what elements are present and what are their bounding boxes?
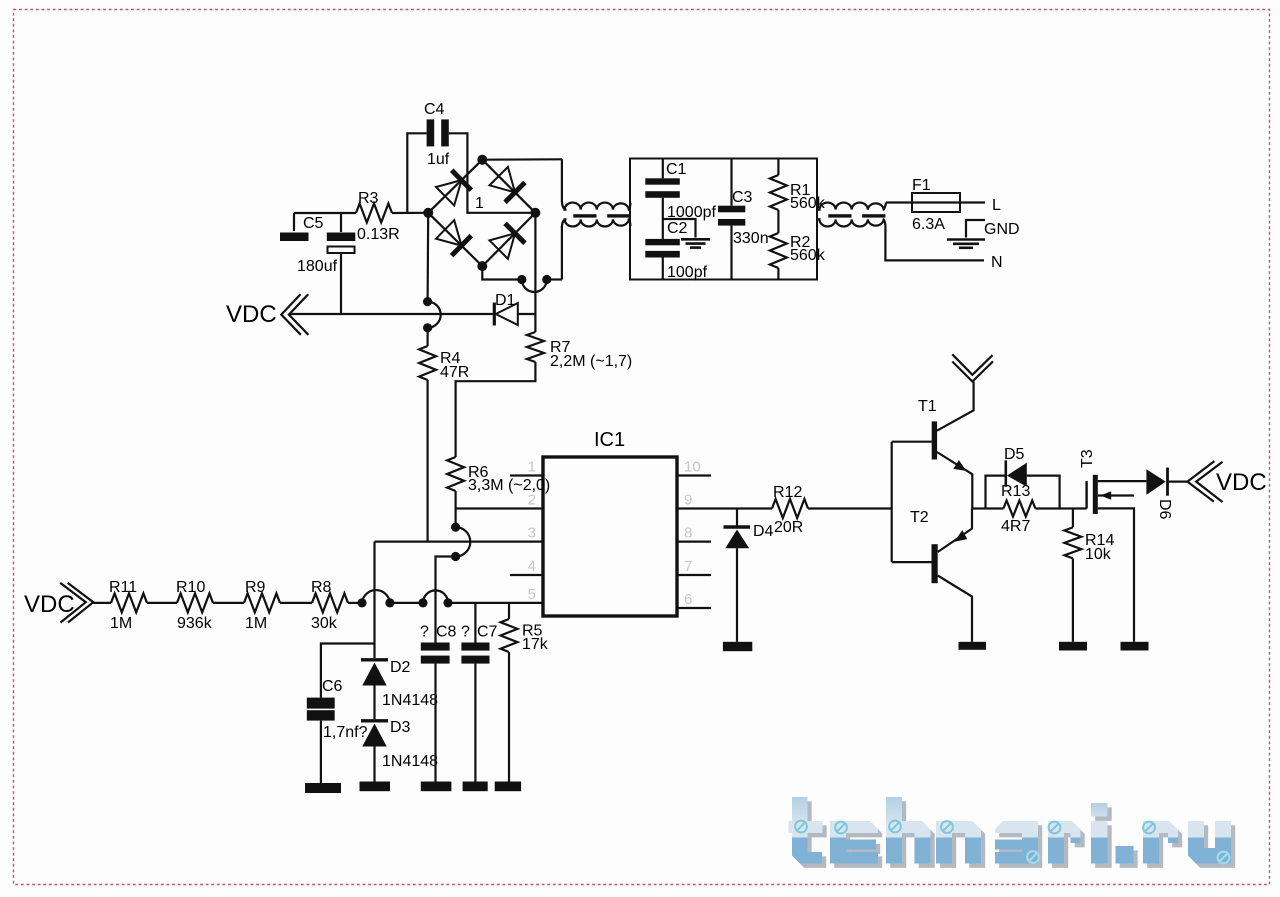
inductor choke2 bottom winding [817,219,885,226]
svg-text:R11: R11 [109,579,137,596]
resistor R9 [244,593,280,612]
resistor R5 [501,603,543,782]
svg-text:1: 1 [475,195,484,212]
watermark letter shadows [793,801,827,868]
svg-text:?: ? [461,624,470,641]
svg-text:8: 8 [684,525,692,542]
svg-text:936k: 936k [177,615,213,632]
resistor R7 [527,332,544,362]
wire D2 branch vertical [373,542,375,658]
capacitor C5 [280,213,356,314]
inductor choke1 core bars [573,214,596,217]
diode D5 [986,446,1060,509]
svg-text:1M: 1M [245,615,267,632]
inductor choke1 top winding [562,201,631,210]
svg-text:R9: R9 [245,579,266,596]
svg-text:T2: T2 [910,509,929,526]
svg-text:10k: 10k [1085,546,1112,563]
watermark letter fills [788,797,823,864]
svg-text:1N4148: 1N4148 [382,692,438,709]
svg-text:7: 7 [684,558,692,575]
wire R10-R9 [213,602,244,604]
bridge diode upper-left [436,180,462,205]
svg-text:C6: C6 [322,678,343,695]
capacitor C2 [645,220,687,280]
svg-text:3,3M (~2,0): 3,3M (~2,0) [468,477,550,494]
svg-text:6.3A: 6.3A [912,216,945,233]
resistor R1 [777,159,779,176]
wire choke2 bottom to N [885,226,984,260]
svg-text:VDC: VDC [1216,469,1267,496]
svg-text:4R7: 4R7 [1001,518,1030,535]
svg-text:R8: R8 [311,579,332,596]
wire hop over C8 branch (x435) [418,598,427,607]
svg-text:D5: D5 [1004,446,1025,463]
svg-text:100pf: 100pf [667,264,708,281]
node bridge left [423,208,433,218]
svg-text:C2: C2 [667,220,688,237]
wire R6 to IC pin 2 [456,507,543,509]
ground under D3 [360,782,391,792]
resistor R10 [177,593,213,612]
svg-text:N: N [991,254,1003,271]
svg-text:R3: R3 [358,190,379,207]
svg-text:D2: D2 [390,659,411,676]
resistor R2 [770,233,787,268]
svg-text:IC1: IC1 [594,429,625,451]
wire output node to R13/D5 [972,507,985,509]
svg-text:2,2M (~1,7): 2,2M (~1,7) [550,353,632,370]
wire R8 to hop [348,602,362,604]
wire choke1 bottom-left riser [561,226,563,280]
svg-text:VDC: VDC [226,301,277,328]
capacitor C8 [421,624,457,782]
resistor R8 [312,593,348,612]
svg-text:1uf: 1uf [427,151,450,168]
ground under T2 [959,642,987,650]
wire hop over pin3 wire (x455) [455,509,457,528]
ground GND port [947,220,1020,248]
inductor choke2 top winding [817,203,886,210]
svg-text:9: 9 [684,492,692,509]
svg-text:D6: D6 [1156,499,1173,520]
svg-text:1M: 1M [110,615,132,632]
capacitor C3 [718,159,753,280]
diode D4 [724,509,774,642]
svg-text:?: ? [420,624,429,641]
svg-text:R12: R12 [773,484,802,501]
wire bridge right node down to D1 [534,213,536,332]
ground under R5 [495,782,521,792]
watermark tehnari.ru [788,797,1235,868]
svg-text:D1: D1 [495,292,516,309]
wire bridge bottom node to bypass [482,266,522,279]
wire R12 to T1/T2 bases [808,507,892,509]
bridge diode lower-left [436,220,462,245]
resistor R11 [111,593,147,612]
svg-text:L: L [992,197,1001,214]
bridge diode lower-right [490,233,516,258]
svg-text:D3: D3 [390,719,411,736]
svg-text:GND: GND [984,221,1020,238]
resistor R3 [356,204,392,223]
svg-text:17k: 17k [522,636,549,653]
power port VDC (upper left) [226,294,308,335]
wire to C8 branch [436,557,456,643]
svg-text:30k: 30k [311,615,338,632]
diode D3 [361,719,411,782]
node bridge right [530,208,540,218]
svg-text:10: 10 [684,459,701,476]
inductor choke1 bottom winding [562,219,631,228]
svg-text:560k: 560k [790,247,826,264]
op-amp IC1 box [543,457,677,616]
transistor T2 [892,509,972,642]
bridge diode upper-right [490,167,516,193]
svg-text:C8: C8 [436,624,457,641]
wire R9-R8 [280,602,312,604]
pin 3 wire [375,540,544,542]
power port VDC arrow above T1 [952,354,992,375]
pin 8 stub [677,540,711,542]
svg-text:T1: T1 [918,398,937,415]
wire hop below bridge (over x535 line) [517,275,526,284]
pin 7 stub [677,574,711,576]
svg-text:1,7nf?: 1,7nf? [323,724,368,741]
wire hop over VDC line (x427) [423,297,432,306]
capacitor C1 [645,159,686,239]
resistor R6 [447,457,464,491]
svg-text:1N4148: 1N4148 [382,753,438,770]
svg-text:D4: D4 [753,523,774,540]
transistor T3 (MOSFET) [1079,449,1146,642]
ground under C6 [305,783,341,793]
ground under T3 source [1121,642,1149,651]
capacitor C7 [461,603,497,782]
svg-text:47R: 47R [440,364,469,381]
fuse F1 [912,177,985,212]
svg-text:R10: R10 [176,579,205,596]
svg-text:VDC: VDC [24,591,75,618]
ground under R14 [1059,642,1087,651]
diode D6 [1146,468,1187,520]
wire VDC to R11 [93,602,111,604]
pin 10 stub [677,474,711,476]
wire VDC to D1 [289,313,493,315]
svg-text:T3: T3 [1079,449,1096,468]
ground under C8 [421,782,452,792]
svg-text:2: 2 [528,492,536,509]
pin 4 stub [510,574,543,576]
svg-text:C5: C5 [303,215,324,232]
svg-text:5: 5 [528,586,536,603]
resistor R13 [1003,501,1035,517]
filter box outline [630,159,817,280]
svg-text:3: 3 [528,525,536,542]
svg-text:4: 4 [528,558,536,575]
capacitor C4 [407,119,535,213]
node bridge top [477,155,487,165]
node bridge bottom [477,261,487,271]
watermark badges [795,821,807,833]
svg-text:6: 6 [684,591,692,608]
diode D1 [494,303,535,326]
wire R7 to R6 [456,362,536,457]
capacitor C6 [307,644,375,784]
diode D2 [361,659,411,719]
ground under D4 [723,642,752,651]
svg-text:C3: C3 [732,189,753,206]
svg-text:C1: C1 [666,161,687,178]
svg-text:F1: F1 [912,177,931,194]
wire choke1 top-left riser [561,159,563,202]
svg-text:1: 1 [528,459,536,476]
pin 9 wire [677,507,772,509]
power port VDC (bottom left) [24,583,93,623]
inductor choke2 core bars [828,214,851,217]
pin 1 stub [510,474,543,476]
bridge rectifier edges (diamond) [428,160,482,213]
ground (earth) inside filter box [663,219,710,248]
svg-text:C7: C7 [477,624,498,641]
wire bridge top node to choke [482,158,562,161]
svg-text:0.13R: 0.13R [357,226,400,243]
svg-text:C4: C4 [424,101,445,118]
wire hop over D2 branch (x375) [357,598,366,607]
svg-text:180uf: 180uf [297,258,338,275]
power port VDC (right) [1187,461,1266,502]
svg-text:20R: 20R [774,519,803,536]
wire R11-R10 [147,602,177,604]
wire R3 to bridge left node [392,212,428,214]
svg-text:R13: R13 [1001,483,1030,500]
ground under C7 [463,782,488,792]
svg-text:330n: 330n [733,230,769,247]
transistor T1 [892,382,974,509]
pin 6 stub [677,607,711,609]
resistor R4 [427,328,429,346]
wire bridge left node down to hop [427,213,430,302]
wire choke2 to fuse [886,201,912,203]
wire hop to IC pin 5 [448,602,543,604]
resistor R14 [1064,509,1114,642]
resistor R12 [772,499,808,518]
